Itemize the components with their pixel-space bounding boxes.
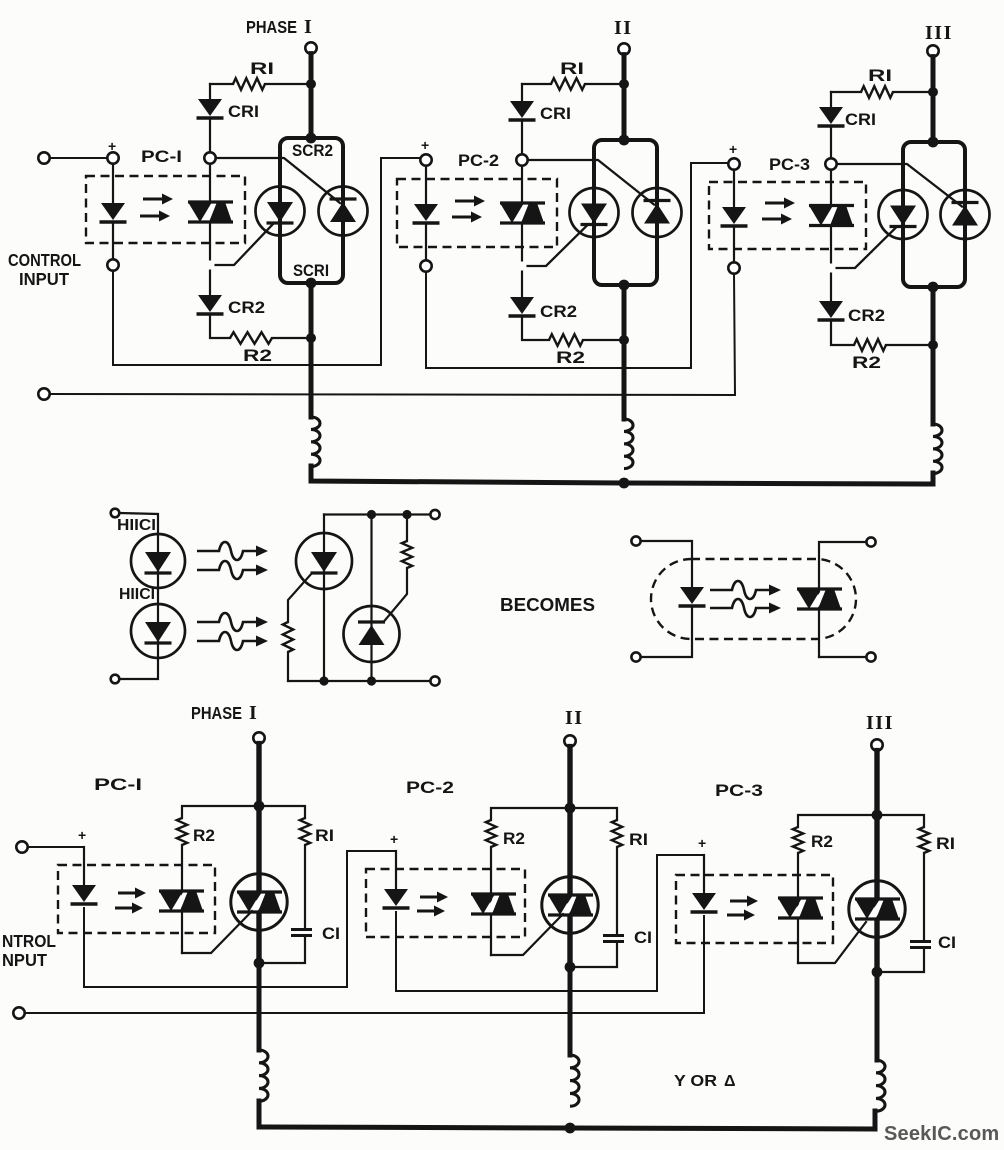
- wire R1 left lead (block 3): [831, 91, 861, 93]
- svg-text:CI: CI: [634, 929, 652, 947]
- phase 1 input terminal: [305, 42, 316, 53]
- light coupling arrow y=622: [197, 613, 256, 631]
- resistor R2 (bottom 2): [486, 820, 496, 847]
- terminal equivalent top: [430, 510, 439, 519]
- triac symbol (bottom 2): [560, 895, 581, 915]
- svg-text:SeekIC.com: SeekIC.com: [884, 1123, 999, 1145]
- wire LED anode (bottom 1): [83, 847, 85, 885]
- junction box top (block 1): [306, 133, 317, 144]
- diode CR1 (block 2): [510, 101, 534, 118]
- SCR pair box (block 2): [594, 140, 657, 285]
- svg-text:PC-3: PC-3: [715, 782, 763, 800]
- junction box bottom (block 1): [306, 278, 317, 289]
- optocoupler PC-2 dashed box (bottom): [366, 869, 525, 937]
- resistor R1 (block 1): [233, 78, 265, 90]
- svg-text:R2: R2: [503, 830, 525, 848]
- wire CR1 to gate node (block 1): [209, 120, 211, 152]
- junction phase-C1 (bottom 3): [872, 967, 883, 978]
- SCR1 circle (block 1): [256, 187, 305, 236]
- resistor gate B (equivalent): [402, 541, 412, 568]
- wire phase through triac (bottom 1): [256, 806, 261, 963]
- terminal LED anode (block 3): [728, 158, 739, 169]
- wire phase I to choke: [309, 338, 314, 417]
- wire phase 1 vertical: [309, 54, 314, 138]
- terminal LED cathode (block 2): [420, 260, 431, 271]
- SCR pair box (block 3): [903, 142, 965, 287]
- wire to photo-triac (block 3): [830, 170, 832, 206]
- wire phase through triac (bottom 3): [874, 815, 879, 972]
- light arrow lower (PC-2): [452, 216, 472, 219]
- svg-text:RI: RI: [629, 831, 648, 849]
- wire gate network SCR-A: [288, 573, 312, 622]
- svg-text:SCR2: SCR2: [292, 142, 333, 160]
- svg-text:SCRI: SCRI: [293, 262, 329, 280]
- wire package LED anode: [641, 541, 692, 587]
- wire phase 2 vertical: [622, 55, 627, 140]
- optocoupler PC-3 dashed box (bottom): [676, 875, 833, 943]
- wire R1 to C1 (bottom 1): [304, 845, 306, 929]
- junction phase-R1 (block 2): [619, 79, 629, 89]
- wire package triac bottom: [819, 656, 866, 658]
- svg-text:+: +: [78, 827, 87, 843]
- svg-text:PC-I: PC-I: [141, 148, 182, 166]
- wire R1 to C1 (bottom 3): [923, 853, 925, 941]
- thyristor SCR1 symbol (block 2): [581, 204, 607, 224]
- wire R1 to CR1 (block 1): [209, 84, 211, 99]
- phase terminal (bottom block 2): [564, 735, 575, 746]
- light arrow upper (bottom 2): [420, 896, 438, 899]
- wire R2 to gate rail (bottom 3): [797, 853, 799, 963]
- light arrow upper (PC-3): [765, 202, 785, 205]
- terminal package bottom-left: [631, 652, 640, 661]
- wire SCR2 gate (block 1): [216, 158, 340, 203]
- terminal H11C1 top: [111, 509, 120, 518]
- wire triac gate (bottom 3): [798, 922, 866, 963]
- photo-triac PC-1 (bottom): [171, 891, 192, 911]
- light coupling arrow package lower: [710, 599, 769, 617]
- resistor R2 (block 1): [230, 332, 272, 344]
- inductor choke phase III: [933, 424, 942, 474]
- light arrow lower (bottom 3): [727, 914, 745, 917]
- svg-text:+: +: [390, 831, 399, 847]
- wire phase II to choke (bottom): [568, 967, 573, 1055]
- wire phase III to choke: [931, 345, 936, 424]
- wire LED2 cathode to PC-3 anode: [426, 163, 728, 368]
- SCR-A circle (equivalent): [296, 533, 352, 589]
- node gate-upper (block 2): [516, 154, 527, 165]
- junction box top (block 3): [928, 137, 939, 148]
- wire SCR2 gate (block 2): [528, 160, 654, 205]
- SCR-B circle (equivalent): [344, 606, 400, 662]
- svg-text:R2: R2: [852, 353, 881, 372]
- wire to CR2 (block 3): [830, 274, 832, 301]
- wire phase vertical upper (bottom 1): [256, 744, 261, 806]
- resistor R1 (block 2): [551, 78, 585, 90]
- wire gate resistor A to bus: [287, 652, 289, 681]
- wire to CR2 (block 2): [521, 272, 523, 297]
- junction top bus B: [367, 510, 376, 519]
- svg-text:CRI: CRI: [228, 102, 259, 121]
- wire phase I to choke (bottom): [257, 963, 262, 1050]
- wire snubber top rail (bottom 3): [798, 815, 924, 827]
- opto-SCR H11C1 lower symbol: [145, 622, 171, 642]
- wire phase III to choke (bottom): [875, 972, 880, 1060]
- photo-triac PC-3 (bottom): [790, 898, 811, 918]
- light coupling arrow y=551: [197, 542, 256, 560]
- LED emitter PC-2 (bottom): [384, 889, 408, 906]
- svg-text:CR2: CR2: [228, 298, 265, 317]
- inductor choke phase I: [311, 417, 320, 467]
- wire CR2 to R2 (block 3): [831, 322, 854, 345]
- control - terminal (bottom): [13, 1007, 24, 1018]
- junction box top (block 2): [619, 135, 630, 146]
- diode CR1 (block 3): [819, 107, 843, 124]
- wire phase through triac (bottom 2): [567, 808, 572, 967]
- inductor load phase II (bottom): [570, 1055, 579, 1106]
- svg-text:Δ: Δ: [724, 1073, 736, 1090]
- opto-SCR H11C1 upper circle: [131, 534, 185, 588]
- diode CR2 (block 2): [510, 297, 534, 314]
- optocoupler PC-3 dashed box: [709, 182, 866, 249]
- wire SCR1 gate (block 3): [837, 228, 896, 269]
- svg-text:R2: R2: [193, 827, 215, 845]
- junction phase-R2 (block 1): [306, 333, 316, 343]
- light arrow lower (PC-3): [762, 218, 782, 221]
- junction phase-C1 (bottom 2): [565, 962, 576, 973]
- junction phase-R1 (block 3): [928, 87, 938, 97]
- svg-text:CRI: CRI: [845, 110, 876, 129]
- terminal LED cathode (block 3): [728, 262, 739, 273]
- triac symbol (bottom 3): [867, 899, 888, 919]
- wire SCR2 gate (block 3): [837, 164, 962, 207]
- junction top bus R: [402, 510, 411, 519]
- svg-text:PHASE: PHASE: [191, 703, 242, 723]
- wire LED3 cathode return bus (bottom): [25, 916, 704, 1013]
- phase terminal (bottom block 1): [253, 732, 264, 743]
- svg-text:PHASE: PHASE: [246, 17, 297, 37]
- SCR-A symbol (equivalent): [311, 552, 337, 572]
- diode CR1 (block 1): [198, 99, 222, 116]
- wire equivalent circuit top bus: [324, 513, 430, 515]
- wire top bus to gate resistor B: [406, 515, 408, 542]
- inductor choke phase II: [624, 419, 633, 469]
- wire phase below box (block 1): [309, 283, 314, 338]
- svg-text:RI: RI: [868, 66, 892, 85]
- wire snubber top rail (bottom 2): [491, 808, 617, 820]
- wire CR2 to R2 (block 1): [210, 316, 230, 338]
- wire LED1 cathode to PC-2 anode: [113, 158, 420, 365]
- photo-triac PC-3: [821, 206, 842, 226]
- svg-text:NPUT: NPUT: [2, 950, 47, 970]
- terminal package top-left: [631, 536, 640, 545]
- wire LED anode (block 2): [425, 166, 427, 204]
- svg-text:II: II: [614, 17, 633, 39]
- wire LED anode (block 3): [733, 170, 735, 207]
- wire triac gate (bottom 2): [491, 914, 563, 955]
- SCR-B symbol (equivalent): [359, 625, 385, 645]
- svg-text:PC-2: PC-2: [406, 779, 454, 797]
- photo-triac (package): [809, 589, 830, 609]
- phase 2 input terminal: [618, 43, 629, 54]
- resistor R2 (block 2): [549, 334, 583, 346]
- wire control + to LED1: [50, 157, 108, 159]
- svg-text:PC-3: PC-3: [769, 156, 810, 174]
- wire R2 to gate rail (bottom 1): [181, 845, 183, 953]
- terminal H11C1 bottom: [111, 675, 120, 684]
- wire LED1 cathode to PC-2 anode (bottom): [84, 851, 396, 987]
- wire package LED cathode: [641, 608, 692, 657]
- thyristor SCR1 symbol (block 3): [890, 206, 916, 226]
- wire phase below box (block 2): [622, 285, 627, 340]
- svg-text:I: I: [249, 702, 258, 724]
- wire H11C1 bottom: [120, 658, 158, 679]
- LED emitter PC-1 (bottom): [72, 885, 96, 902]
- svg-text:CR2: CR2: [848, 306, 885, 325]
- wire SCR-A branch: [323, 515, 325, 682]
- svg-text:R2: R2: [811, 833, 833, 851]
- inductor load phase III (bottom): [876, 1060, 885, 1111]
- optocoupler PC-2 dashed box: [397, 179, 557, 247]
- SCR2 circle (block 2): [633, 188, 682, 237]
- wire to photo-triac (block 2): [521, 166, 523, 203]
- svg-text:R2: R2: [556, 348, 585, 367]
- junction bus phase II (top): [619, 478, 630, 489]
- wire SCR1 gate (block 1): [216, 224, 273, 265]
- terminal package bottom-right: [866, 652, 875, 661]
- light arrow lower (bottom 1): [115, 907, 133, 910]
- light arrow upper (PC-1): [143, 198, 163, 201]
- junction phase-R2 (block 3): [928, 340, 938, 350]
- photo-triac PC-2: [512, 203, 533, 223]
- wire to photo-triac (block 1): [209, 164, 211, 202]
- control input - terminal (top): [38, 388, 49, 399]
- wire LED cathode (block 2): [425, 225, 427, 260]
- wire phase II to choke: [622, 340, 627, 419]
- wire three-phase common bus (top section): [311, 466, 933, 484]
- junction bus phase II (bottom): [565, 1123, 576, 1134]
- light arrow upper (bottom 1): [118, 892, 136, 895]
- terminal LED cathode (block 1): [107, 259, 118, 270]
- svg-text:CR2: CR2: [540, 302, 577, 321]
- wire three-phase load bus (bottom): [259, 1101, 875, 1129]
- resistor R1 (bottom 3): [919, 827, 929, 853]
- phase terminal (bottom block 3): [871, 739, 882, 750]
- wire R1 to CR1 (block 3): [830, 92, 832, 107]
- svg-text:BECOMES: BECOMES: [500, 594, 595, 615]
- wire LED cathode (block 1): [112, 224, 114, 259]
- wire gate network SCR-B: [384, 568, 408, 622]
- capacitor C1 (bottom 1): [291, 928, 312, 931]
- svg-text:I: I: [304, 16, 313, 38]
- opto-triac package dashed outline: [651, 559, 856, 639]
- SCR pair box (block 1): [280, 138, 343, 283]
- svg-text:PC-2: PC-2: [458, 152, 499, 170]
- wire C1 to phase junction (bottom 2): [570, 943, 617, 968]
- svg-text:RI: RI: [315, 827, 334, 845]
- wire R1 left lead (block 2): [522, 83, 551, 85]
- terminal package top-right: [866, 537, 875, 546]
- junction phase-C1 (bottom 1): [254, 958, 265, 969]
- svg-text:R2: R2: [243, 346, 272, 365]
- thyristor SCR2 symbol (block 1): [330, 202, 356, 222]
- capacitor C1 (bottom 3): [910, 940, 931, 943]
- resistor R1 (bottom 2): [612, 820, 622, 847]
- svg-text:PC-I: PC-I: [94, 776, 142, 794]
- thyristor SCR2 symbol (block 2): [644, 204, 670, 224]
- svg-text:CI: CI: [938, 934, 956, 952]
- wire C1 to phase junction (bottom 3): [877, 949, 924, 973]
- wire R1 to C1 (bottom 2): [616, 847, 618, 935]
- svg-text:RI: RI: [560, 59, 584, 78]
- optocoupler PC-1 dashed box: [86, 176, 245, 243]
- resistor gate A (equivalent): [283, 622, 293, 652]
- svg-text:HIICI: HIICI: [119, 586, 155, 603]
- LED emitter PC-3: [722, 207, 746, 224]
- svg-text:+: +: [698, 835, 707, 851]
- wire CR1 to gate node (block 2): [521, 122, 523, 154]
- svg-text:Y OR: Y OR: [674, 1073, 717, 1090]
- capacitor C1 (bottom 2): [603, 934, 624, 937]
- svg-text:RI: RI: [250, 59, 274, 78]
- junction phase top rail (bottom 1): [254, 801, 265, 812]
- svg-text:CONTROL: CONTROL: [8, 250, 81, 270]
- thyristor SCR1 symbol (block 1): [267, 202, 293, 222]
- svg-text:+: +: [729, 141, 738, 157]
- wire triac gate (bottom 1): [182, 911, 252, 953]
- resistor R1 (block 3): [861, 86, 893, 98]
- terminal LED anode (block 2): [420, 154, 431, 165]
- light arrow lower (PC-1): [140, 215, 160, 218]
- terminal equivalent bottom: [430, 676, 439, 685]
- triac circle (bottom 3): [849, 881, 905, 937]
- wire control + to LED1 (bottom): [28, 846, 84, 848]
- svg-text:RI: RI: [936, 835, 955, 853]
- triac symbol (bottom 1): [249, 892, 270, 912]
- triac circle (bottom 2): [542, 877, 598, 933]
- svg-text:II: II: [565, 707, 584, 729]
- junction phase-R2 (block 2): [619, 335, 629, 345]
- wire phase vertical upper (bottom 3): [874, 751, 879, 815]
- svg-text:NTROL: NTROL: [2, 931, 56, 951]
- wire LED anode (bottom 2): [395, 851, 397, 889]
- LED emitter (package): [680, 587, 704, 604]
- junction bottom bus B: [367, 676, 376, 685]
- SCR1 circle (block 2): [570, 188, 619, 237]
- light coupling arrow package upper: [710, 581, 769, 599]
- thyristor SCR2 symbol (block 3): [952, 206, 978, 226]
- junction bottom bus A: [319, 676, 328, 685]
- wire SCR1 gate (block 2): [528, 226, 587, 267]
- svg-text:CRI: CRI: [540, 104, 571, 123]
- svg-text:III: III: [925, 22, 953, 44]
- light arrow lower (bottom 2): [417, 910, 435, 913]
- wire LED anode (bottom 3): [703, 855, 705, 893]
- light arrow upper (bottom 3): [730, 900, 748, 903]
- svg-text:+: +: [421, 137, 430, 153]
- photo-triac PC-1: [200, 202, 221, 222]
- junction phase top rail (bottom 3): [872, 810, 883, 821]
- wire R2 to gate rail (bottom 2): [490, 847, 492, 955]
- optocoupler PC-1 dashed box (bottom): [58, 865, 215, 933]
- resistor R1 (bottom 1): [300, 818, 310, 845]
- diode CR2 (block 3): [819, 301, 843, 318]
- svg-text:III: III: [866, 712, 894, 734]
- opto-SCR H11C1 upper symbol: [145, 552, 171, 572]
- terminal LED anode (block 1): [107, 152, 118, 163]
- svg-text:CI: CI: [322, 925, 340, 943]
- node gate-upper (block 1): [204, 152, 215, 163]
- wire phase vertical upper (bottom 2): [567, 747, 572, 808]
- triac circle (bottom 1): [231, 874, 287, 930]
- wire LED3 cathode return bus: [44, 274, 735, 395]
- SCR2 circle (block 3): [941, 190, 990, 239]
- resistor R2 (bottom 1): [177, 818, 187, 845]
- SCR1 circle (block 3): [879, 190, 928, 239]
- wire equivalent circuit bottom bus: [288, 680, 430, 682]
- junction phase top rail (bottom 2): [565, 803, 576, 814]
- control + terminal (bottom): [16, 841, 27, 852]
- light coupling arrow y=570: [197, 561, 256, 579]
- LED emitter PC-2: [414, 204, 438, 221]
- phase 3 input terminal: [927, 45, 938, 56]
- wire snubber top rail (bottom 1): [182, 806, 305, 818]
- photo-triac PC-2 (bottom): [483, 894, 504, 914]
- svg-text:HIICI: HIICI: [117, 517, 156, 534]
- LED emitter PC-3 (bottom): [692, 893, 716, 910]
- wire LED cathode (block 3): [733, 228, 735, 262]
- wire R1 to CR1 (block 2): [521, 84, 523, 101]
- wire to CR2 (block 1): [209, 271, 211, 295]
- SCR2 circle (block 1): [319, 187, 368, 236]
- LED emitter PC-1: [101, 203, 125, 220]
- wire through H11C1 pair: [157, 534, 159, 658]
- svg-text:INPUT: INPUT: [19, 269, 69, 289]
- junction box bottom (block 2): [619, 280, 630, 291]
- control input + terminal (top): [38, 152, 49, 163]
- junction phase-R1 (block 1): [306, 79, 316, 89]
- diode CR2 (block 1): [198, 295, 222, 312]
- wire LED2 cathode to PC-3 anode (bottom): [396, 855, 704, 991]
- wire CR2 to R2 (block 2): [522, 318, 549, 340]
- wire C1 to phase junction (bottom 1): [259, 937, 305, 964]
- wire LED anode (block 1): [112, 164, 114, 203]
- wire phase below box (block 3): [931, 287, 936, 345]
- junction box bottom (block 3): [928, 282, 939, 293]
- wire phase 3 vertical: [931, 57, 936, 142]
- wire R1 left lead (block 1): [210, 83, 233, 85]
- resistor R2 (bottom 3): [793, 827, 803, 853]
- light arrow upper (PC-2): [455, 200, 475, 203]
- wire to H11C1 upper: [120, 513, 158, 534]
- wire CR1 to gate node (block 3): [830, 128, 832, 158]
- light coupling arrow y=641: [197, 632, 256, 650]
- node gate-upper (block 3): [825, 158, 836, 169]
- resistor R2 (block 3): [854, 339, 886, 351]
- inductor load phase I (bottom): [259, 1050, 268, 1101]
- opto-SCR H11C1 lower circle: [131, 604, 185, 658]
- wire package triac top: [819, 542, 866, 589]
- wire SCR-B branch: [370, 515, 372, 682]
